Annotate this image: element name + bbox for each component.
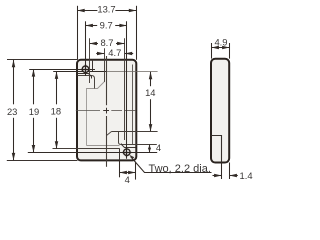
front inner chamfer to slot vertical: [107, 132, 112, 136]
dim 8.7 line: [90, 43, 125, 45]
dim 4 bottom line: [120, 172, 136, 174]
leader line to holes: [131, 157, 212, 173]
dim 13.7 arrows: [77, 9, 84, 13]
svg-text:18: 18: [51, 106, 61, 117]
screw hole top-left cross: [81, 65, 90, 74]
dim 4 right reference line: [135, 144, 157, 146]
dim 23 reference lines: [7, 60, 78, 161]
dim 4 right line: [149, 145, 151, 153]
dim 23 line: [13, 60, 15, 160]
dim 23 arrows: [12, 60, 16, 67]
side view inner step: [212, 136, 222, 163]
notch bottom-right: [122, 144, 136, 148]
svg-text:4.9: 4.9: [214, 36, 227, 47]
svg-text:9.7: 9.7: [100, 20, 113, 31]
leader arrowhead: [129, 155, 134, 159]
dim 4.7 outside arrow right: [125, 53, 133, 55]
dim 14 line: [150, 72, 152, 131]
dim 1.4 extension lines: [222, 162, 230, 179]
svg-text:13.7: 13.7: [97, 4, 115, 15]
dim 18 line: [56, 72, 58, 149]
ref line y=148.7 (18 bottom reference): [53, 148, 120, 150]
dim 4 bottom arrows: [120, 171, 127, 175]
side view body outline: [211, 59, 229, 163]
front inner right wall line: [132, 65, 134, 145]
dim 19 arrows: [32, 69, 36, 76]
dim 9.7 arrows: [86, 24, 93, 28]
dim 4.7 outside arrow left: [96, 53, 104, 55]
step vertical top: [92, 60, 94, 72]
dim 13.7 extension lines: [78, 6, 137, 60]
dim 4.9 arrows: [212, 46, 219, 50]
svg-text:1.4: 1.4: [240, 170, 253, 181]
hole centerline vertical (bottom hole, 9.7 right ext): [126, 21, 128, 159]
screw hole bottom-right cross: [122, 148, 131, 157]
svg-text:23: 23: [7, 106, 17, 117]
dim 13.7 line: [77, 10, 136, 12]
hole centerline vertical (top hole, 9.7 left ext): [85, 21, 87, 75]
svg-text:4.7: 4.7: [108, 47, 121, 58]
svg-text:19: 19: [29, 106, 39, 117]
step vertical bottom: [119, 149, 121, 161]
centerline horizontal through body center: [76, 110, 136, 112]
dim 1.4 outside arrow right: [229, 175, 238, 177]
front inner light contour top-left: [87, 82, 105, 146]
svg-text:4: 4: [156, 142, 161, 153]
center cross: [103, 108, 109, 114]
dim 18 arrows: [55, 72, 59, 79]
front view body outline: [77, 60, 136, 161]
dim 9.7 line: [85, 25, 126, 27]
svg-text:4: 4: [125, 174, 130, 185]
dim 4 bottom extension lines: [120, 161, 136, 180]
dim 14 bottom reference line: [112, 131, 158, 133]
ref line y=71.5 (18/14 top reference): [53, 71, 106, 73]
front inner light contour bottom horizontal: [87, 145, 120, 147]
screw hole top-left: [82, 66, 89, 73]
dim 1.4 outside arrow left: [213, 175, 222, 177]
dim 4.7 extension line left: [104, 48, 106, 82]
hole crosshair horizontal top (19 top ref): [29, 69, 95, 71]
hole crosshair horizontal bottom (19/18 bottom ref): [28, 152, 157, 154]
slot vertical centerline: [106, 56, 108, 167]
svg-text:14: 14: [145, 87, 155, 98]
dim 4.9 extension lines: [212, 43, 230, 59]
dim 14 arrows: [149, 72, 153, 79]
front inner step outline bottom-right: [119, 132, 136, 145]
dim 4 right arrows: [148, 145, 151, 150]
svg-text:Two, 2.2 dia.: Two, 2.2 dia.: [149, 163, 211, 175]
notch top-left: [78, 74, 92, 79]
dim 8.7 extension lines: [90, 38, 125, 140]
dim 19 line: [33, 69, 35, 152]
dim 4.9 line: [211, 47, 229, 49]
dim 8.7 arrows: [90, 42, 97, 46]
screw hole bottom-right: [124, 149, 131, 156]
front inner step outline top-left: [78, 76, 95, 89]
